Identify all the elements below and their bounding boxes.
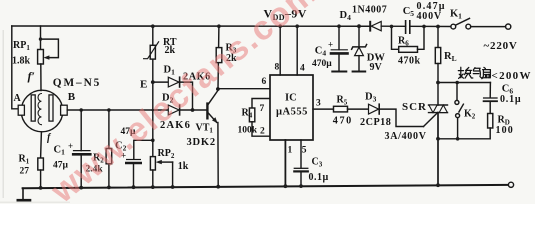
wire bottom rail <box>23 185 509 188</box>
svg-text:RL: RL <box>444 51 457 63</box>
svg-text:100k: 100k <box>238 126 258 136</box>
svg-text:2: 2 <box>260 127 265 137</box>
svg-text:QM–N5: QM–N5 <box>53 77 101 89</box>
capacitor C3 on pin5 <box>294 140 308 186</box>
wire pin8 <box>279 26 281 75</box>
svg-text:R5: R5 <box>337 95 348 107</box>
wire rail C5-K1 segment <box>410 25 451 27</box>
node E <box>151 80 155 84</box>
potentiometer RP2 <box>150 157 172 188</box>
thermistor RT <box>144 42 159 59</box>
thermistor RT vertical line <box>152 26 154 156</box>
svg-text:C1: C1 <box>54 145 66 157</box>
svg-text:VT1: VT1 <box>196 123 214 135</box>
svg-text:3A/400V: 3A/400V <box>385 131 427 142</box>
svg-text:K1: K1 <box>450 9 462 21</box>
capacitor C1 <box>73 110 90 188</box>
svg-text:SCR: SCR <box>402 101 427 113</box>
svg-text:4: 4 <box>300 64 305 74</box>
wire K2/C6 branch <box>438 82 490 84</box>
wire top rail left segment <box>12 25 370 27</box>
svg-text:8: 8 <box>275 63 280 73</box>
svg-text:f: f <box>47 133 52 144</box>
svg-text:+: + <box>328 40 333 50</box>
svg-text:A: A <box>14 93 22 104</box>
capacitor C2 <box>126 139 154 188</box>
wire node B line <box>67 109 168 111</box>
capacitor C4 <box>331 26 348 71</box>
svg-text:R1: R1 <box>19 154 30 166</box>
svg-text:D4: D4 <box>340 10 352 22</box>
svg-text:E: E <box>140 79 147 91</box>
resistor RL (load) <box>435 27 440 106</box>
svg-text:400V: 400V <box>417 11 442 22</box>
junction dots bottom rail <box>39 183 440 190</box>
resistor RD <box>438 114 493 139</box>
svg-text:7: 7 <box>260 104 265 114</box>
svg-text:C4: C4 <box>315 46 327 58</box>
svg-text:470k: 470k <box>398 56 421 67</box>
svg-text:3: 3 <box>316 99 321 109</box>
diode D2 <box>168 105 206 115</box>
svg-text:+: + <box>68 141 73 151</box>
diode D4 <box>370 21 381 30</box>
svg-text:D1: D1 <box>164 65 176 77</box>
op-amp U1 IC µA555 box <box>270 75 313 140</box>
svg-text:f′: f′ <box>28 69 35 83</box>
svg-text:1.8k: 1.8k <box>12 56 31 67</box>
wire rail D4-C5 segment <box>381 25 405 27</box>
svg-text:K2: K2 <box>464 109 476 121</box>
wire pin3 row <box>313 108 334 110</box>
diode D3 <box>369 104 424 126</box>
node crossing at RT line <box>152 109 155 112</box>
svg-text:D3: D3 <box>365 92 377 104</box>
svg-text:1k: 1k <box>178 161 189 172</box>
node junction at R2 <box>107 108 111 112</box>
svg-text:1N4007: 1N4007 <box>352 5 387 16</box>
terminal 220V bottom <box>508 182 513 187</box>
junction dots top rail <box>151 24 440 28</box>
svg-text:<200W: <200W <box>492 70 532 82</box>
transistor VT1 <box>207 91 218 187</box>
zener diode DW <box>352 26 367 71</box>
svg-text:0.1µ: 0.1µ <box>500 94 521 105</box>
resistor R4 with pin7/pin2 loop <box>249 99 270 137</box>
svg-text:9V: 9V <box>370 62 383 73</box>
node junction D1/D2 cathodes <box>191 108 195 112</box>
svg-text:2CP18: 2CP18 <box>360 117 391 128</box>
node collector junction <box>216 87 220 91</box>
resistor R3 <box>216 26 222 89</box>
wire pin4 <box>296 26 298 75</box>
svg-text:1: 1 <box>288 146 293 156</box>
node junction at C1 <box>79 108 83 112</box>
svg-text:3DK2: 3DK2 <box>187 137 216 148</box>
svg-text:6: 6 <box>262 77 267 87</box>
wire pin1 <box>284 140 286 186</box>
diode D1 <box>153 77 193 110</box>
svg-text:5: 5 <box>302 146 307 156</box>
wire pin6 <box>218 88 270 90</box>
scan edge artifact left <box>3 30 4 198</box>
resistor R6 loop <box>392 26 425 52</box>
switch K1 <box>451 18 505 29</box>
triac SCR <box>424 105 448 185</box>
svg-text:0.1µ: 0.1µ <box>309 172 329 183</box>
resistor R5 <box>334 106 369 112</box>
svg-text:B: B <box>68 91 76 103</box>
resistor R2 <box>106 110 112 187</box>
svg-text:~220V: ~220V <box>484 40 518 52</box>
svg-text:RP1: RP1 <box>13 40 30 52</box>
ground <box>18 188 30 200</box>
terminal 220V top <box>506 24 511 29</box>
svg-text:C3: C3 <box>312 157 323 169</box>
switch K2 <box>455 83 464 139</box>
svg-text:C5: C5 <box>403 6 415 18</box>
gas sensor QM-N5 <box>18 90 67 158</box>
scan edge artifact bottom <box>0 202 70 203</box>
label 换气扇<200W (fan) <box>458 67 490 79</box>
svg-text:IC: IC <box>285 93 297 104</box>
resistor R1 <box>38 158 44 188</box>
svg-text:RP2: RP2 <box>158 148 175 160</box>
svg-text:R6: R6 <box>398 36 409 48</box>
potentiometer RP1 <box>38 26 59 91</box>
capacitor C5 <box>406 21 410 33</box>
svg-text:470: 470 <box>333 115 353 126</box>
wire left vertical branch <box>12 26 18 109</box>
svg-text:470µ: 470µ <box>312 59 332 69</box>
svg-text:µA555: µA555 <box>276 107 308 118</box>
capacitor C6 <box>484 83 497 114</box>
svg-text:100: 100 <box>496 125 514 136</box>
svg-text:2k: 2k <box>165 45 176 56</box>
svg-text:27: 27 <box>20 167 30 177</box>
